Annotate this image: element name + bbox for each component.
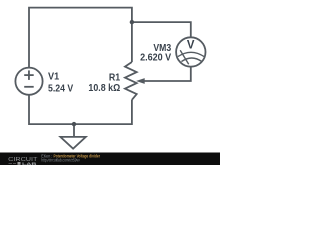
svg-text:V: V xyxy=(187,38,195,52)
svg-text:http։∕∕circuitlab.com∕c∕z59vv: http։∕∕circuitlab.com∕c∕z59vv xyxy=(41,157,80,162)
svg-text:10.8 kΩ: 10.8 kΩ xyxy=(88,83,120,94)
svg-text:5.24 V: 5.24 V xyxy=(48,84,73,95)
svg-text:LAB: LAB xyxy=(22,162,37,165)
svg-text:2.620 V: 2.620 V xyxy=(140,52,171,63)
svg-text:V1: V1 xyxy=(48,72,59,83)
svg-text:R1: R1 xyxy=(109,72,121,83)
